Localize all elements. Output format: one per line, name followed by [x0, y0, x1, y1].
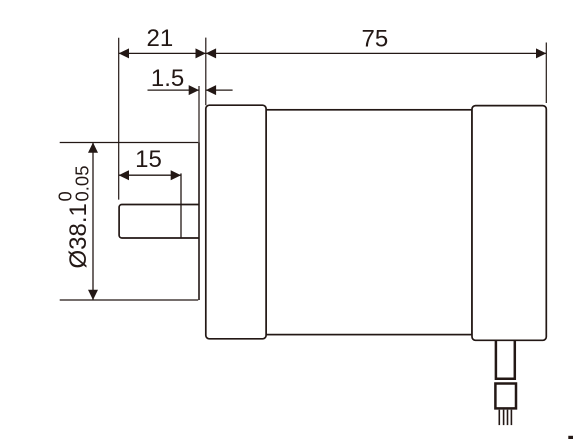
connector stem	[496, 340, 515, 379]
wire	[507, 410, 509, 425]
dimension 1.5 right tail	[206, 89, 233, 91]
arrow left of 21	[119, 48, 129, 58]
dimension 1.5 left tail	[148, 89, 200, 91]
svg-text:1.5: 1.5	[151, 65, 184, 92]
extension of boss face for 1.5 dim	[198, 86, 200, 143]
extension line shaft tip	[118, 38, 120, 200]
shaft flat end line	[180, 173, 182, 238]
connector housing	[495, 384, 516, 409]
arrow 1.5 right	[206, 85, 216, 95]
motor main body	[266, 110, 472, 335]
shaft	[119, 205, 199, 239]
dimension line 15	[119, 174, 181, 176]
pilot boss front face	[198, 143, 200, 301]
page corner mark	[568, 436, 573, 439]
svg-text:21: 21	[147, 25, 174, 52]
label diameter 38.1 with tolerance	[55, 165, 93, 268]
arrow 15 left	[119, 170, 129, 180]
arrow right of 21	[196, 48, 206, 58]
arrow 1.5 left	[189, 85, 199, 95]
svg-text:0: 0	[55, 191, 76, 201]
svg-text:75: 75	[362, 26, 389, 53]
arrow diameter bottom	[88, 290, 98, 300]
arrow diameter top	[88, 143, 98, 153]
lead wires	[498, 410, 500, 425]
extension line mounting face	[205, 38, 207, 106]
arrow left of 75	[206, 48, 216, 58]
extension line boss top	[60, 142, 199, 144]
extension line boss bottom	[60, 299, 199, 301]
wire	[503, 410, 505, 425]
arrow right of 75	[536, 48, 546, 58]
svg-text:15: 15	[135, 146, 162, 173]
dimension line 21 / 75	[119, 52, 547, 54]
rear end-bell plate	[472, 106, 546, 341]
dimension line diameter	[92, 143, 94, 301]
arrow 15 right	[171, 170, 181, 180]
extension line rear face	[545, 43, 547, 104]
svg-text:Ø38.1: Ø38.1	[65, 203, 92, 268]
wire	[510, 410, 512, 425]
front end-bell plate	[206, 105, 266, 339]
